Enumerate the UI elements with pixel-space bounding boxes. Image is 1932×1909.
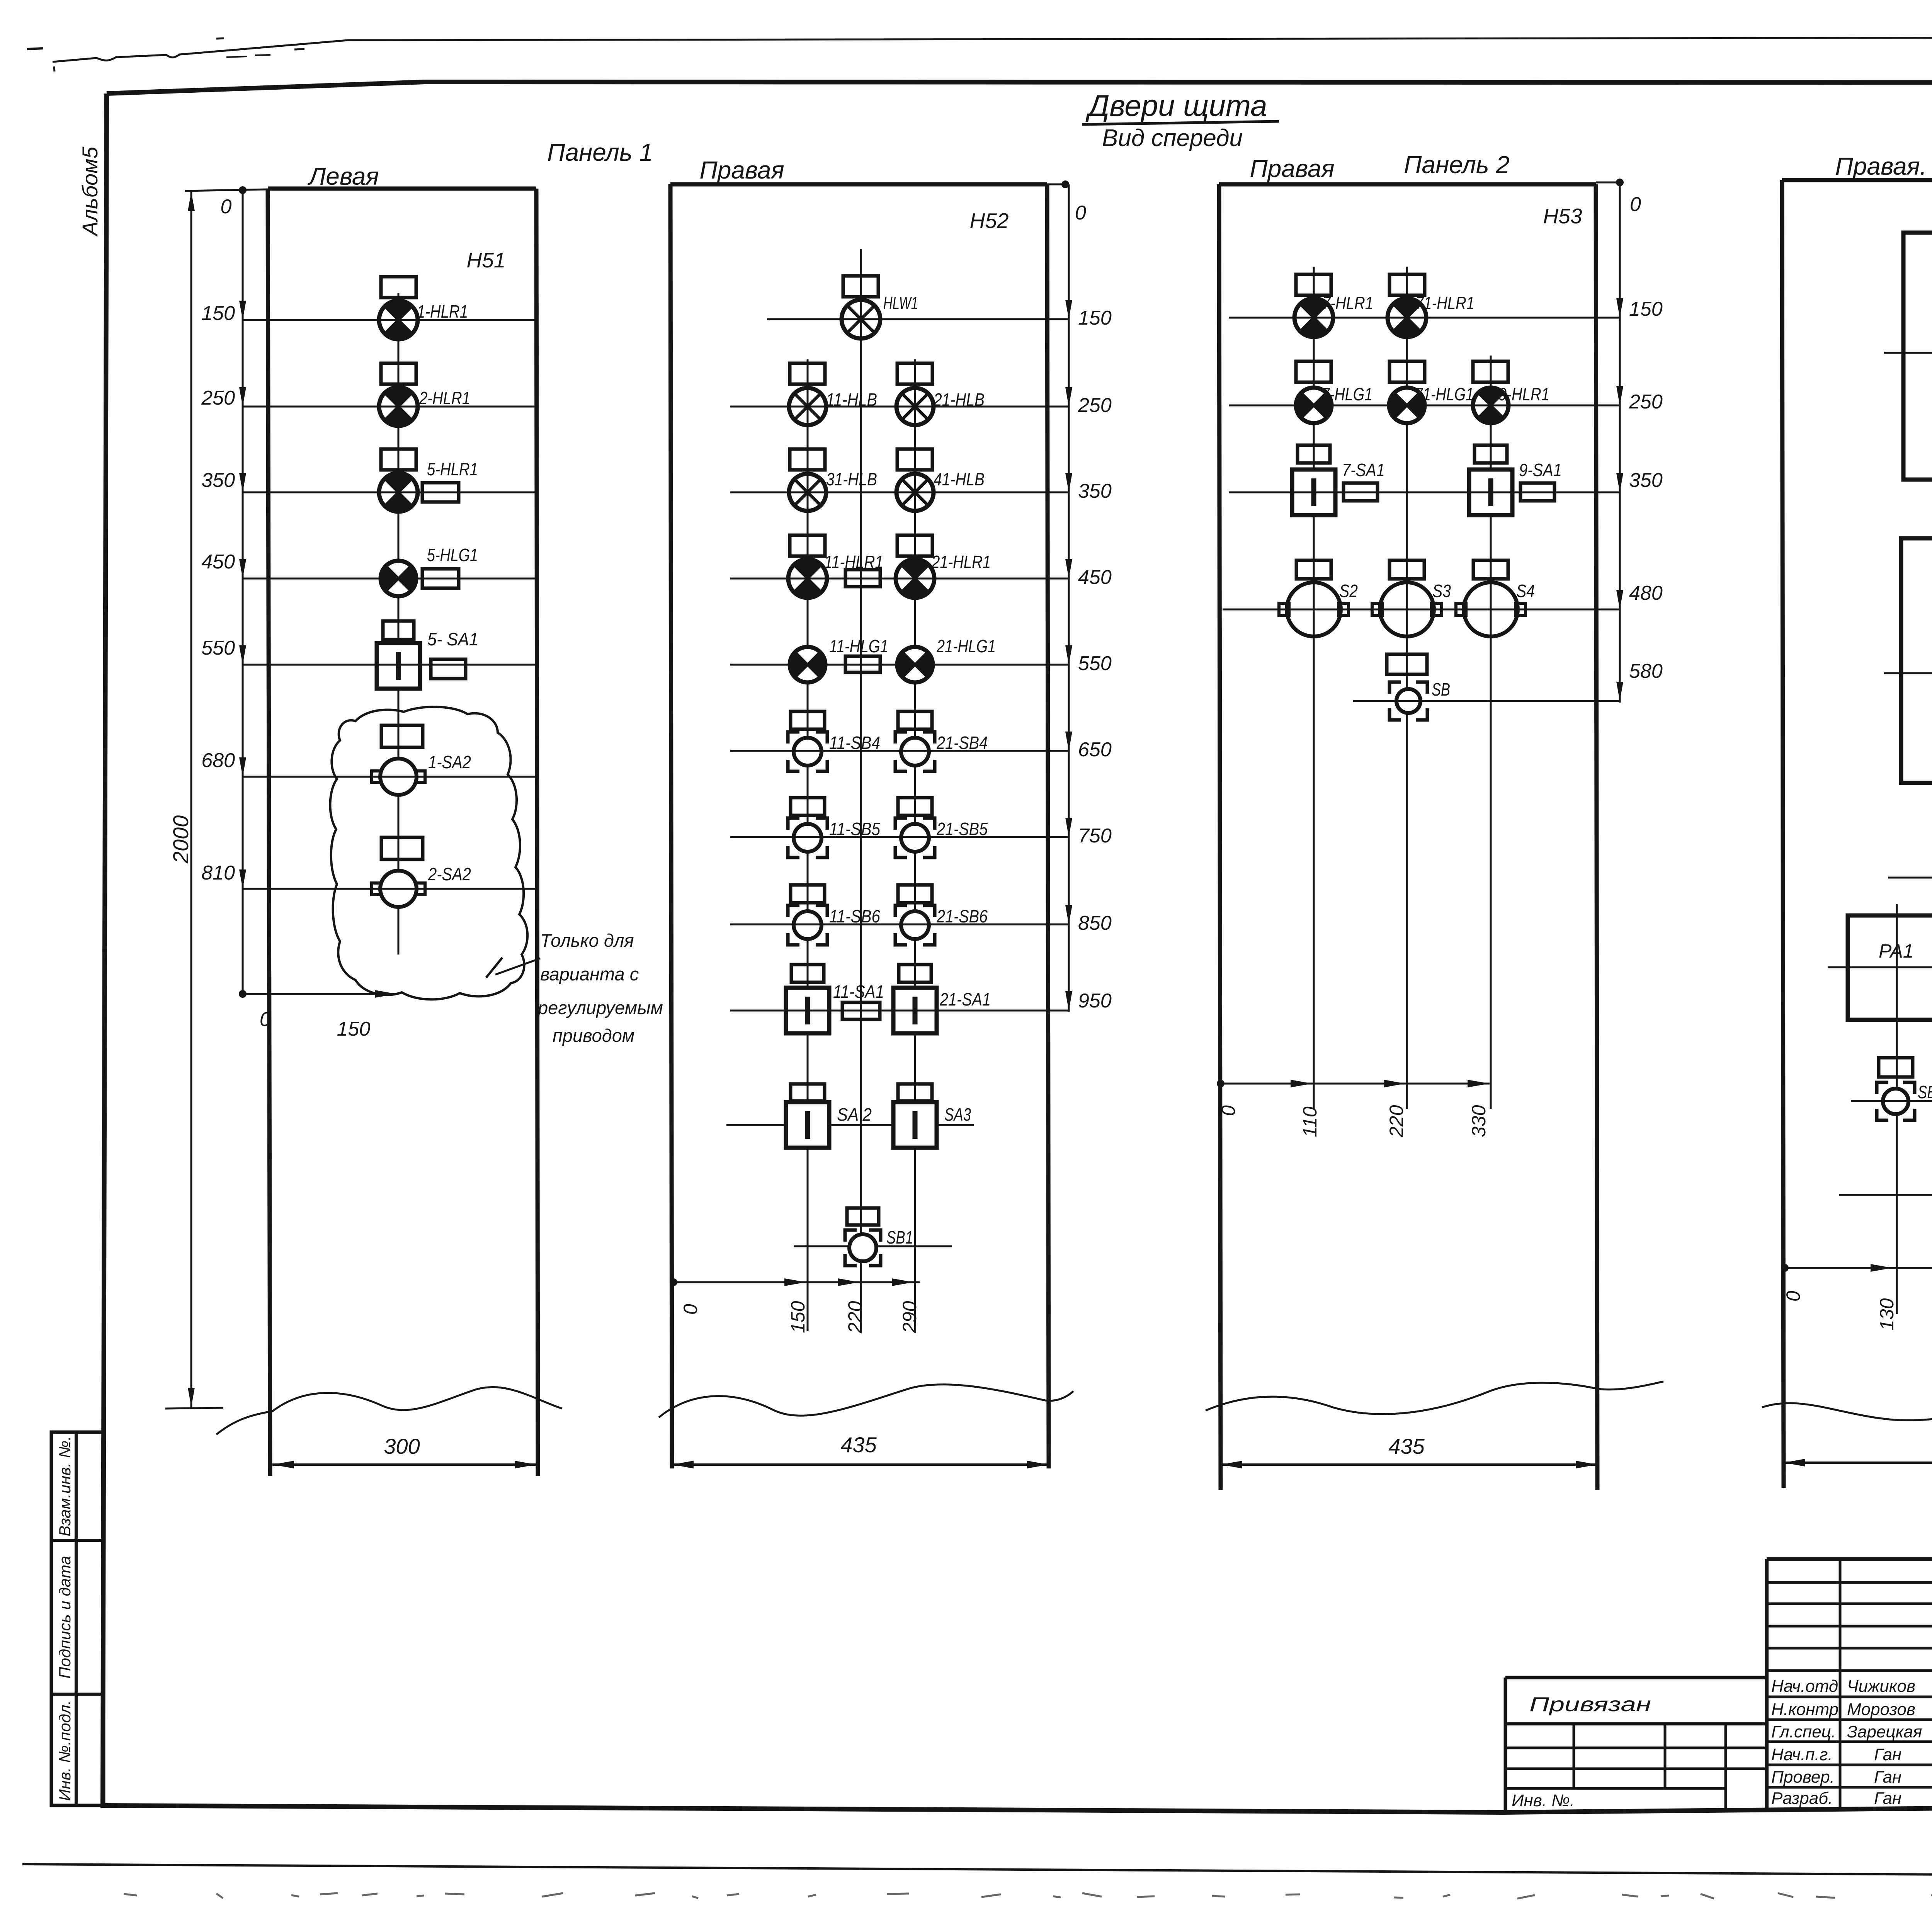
variant cloud outline — [330, 707, 527, 999]
svg-text:Ган: Ган — [1874, 1768, 1901, 1786]
switch 11-SA1 label — [833, 982, 884, 1002]
panel 3 dimension line 250 — [1229, 386, 1663, 413]
label Инв. N — [1512, 1791, 1575, 1810]
button 21-SB6 label — [936, 906, 988, 926]
svg-text:450: 450 — [1078, 566, 1112, 589]
panel 2 break wave — [659, 1385, 1073, 1417]
panel 2 designator Н52 — [970, 209, 1009, 233]
panel 2 dimension line 650 — [730, 732, 1112, 761]
svg-text:0: 0 — [680, 1304, 701, 1315]
staff row Гл.спец. Зарецкая — [1771, 1722, 1922, 1741]
panel 1 left door outline H51 — [268, 189, 538, 1476]
panel 2 right door outline H52 — [670, 184, 1049, 1468]
svg-text:71-HLR1: 71-HLR1 — [1415, 293, 1475, 313]
panel 3 label Панель 2 — [1404, 151, 1510, 179]
scan bottom smudge dashes — [124, 1893, 1932, 1899]
panel 2 dimension line 750 — [730, 818, 1112, 847]
instrument РТ1 — [1903, 233, 1932, 480]
staff table grid — [1767, 1559, 1932, 1809]
lamp 1-HLR1 — [379, 301, 418, 339]
panel 2 column centerline 220 — [860, 249, 862, 1331]
button 11-SB4 — [788, 732, 827, 771]
lamp 41-HLB — [896, 474, 934, 511]
lamp 1-HLR1 label — [417, 301, 468, 322]
button 21-SB4 label plate — [898, 711, 932, 729]
panel 2 dimension line 550 — [730, 645, 1112, 675]
panel 1 dimension line 550 — [201, 637, 536, 665]
lamp 11-HLG1 — [789, 647, 826, 682]
svg-text:SA 2: SA 2 — [837, 1104, 872, 1125]
button 11-SB5 label plate — [791, 798, 825, 815]
panel 3 dimension line 580 — [1353, 660, 1663, 701]
lamp 11-HLB label plate — [790, 363, 825, 384]
lamp 71-HLR1 label — [1415, 293, 1475, 313]
button SB1 label — [886, 1227, 913, 1247]
lamp 11-HLB — [789, 388, 826, 425]
lamp 9-HLR1 label plate — [1473, 361, 1508, 382]
button 21-SB4 label — [936, 733, 988, 753]
panel 2 title Правая — [699, 156, 784, 184]
lamp 5-HLR1 side plate — [422, 483, 459, 502]
main title Двери щита — [1082, 88, 1279, 124]
staff row Разраб. Ган — [1771, 1789, 1901, 1808]
panel 3 top-right dimension origin — [1596, 179, 1641, 703]
button 21-SB4 — [895, 732, 935, 771]
lamp 31-HLB — [789, 474, 826, 511]
svg-text:Нач.п.г.: Нач.п.г. — [1771, 1745, 1833, 1764]
svg-text:450: 450 — [201, 551, 235, 573]
panel 3 bottom position dimension — [1217, 1080, 1490, 1138]
svg-text:21-SB6: 21-SB6 — [936, 906, 988, 926]
svg-text:Только для: Только для — [540, 930, 634, 951]
panel 3 door outline H53 — [1219, 184, 1597, 1490]
svg-text:Провер.: Провер. — [1771, 1768, 1835, 1786]
svg-text:11-HLG1: 11-HLG1 — [829, 636, 888, 656]
label Панель 1 — [547, 138, 653, 166]
svg-text:71-HLG1: 71-HLG1 — [1415, 384, 1474, 404]
button 11-SB6 label plate — [791, 885, 825, 903]
svg-text:SB: SB — [1432, 679, 1450, 699]
svg-text:Панель 1: Панель 1 — [547, 138, 653, 166]
svg-text:150: 150 — [201, 302, 235, 325]
svg-text:2000: 2000 — [168, 815, 193, 864]
panel 2 top-right dimension origin — [1047, 180, 1086, 1012]
svg-text:21-SA1: 21-SA1 — [939, 989, 991, 1009]
svg-text:9-HLR1: 9-HLR1 — [1498, 384, 1549, 404]
panel 1 width dimension 300 — [272, 1434, 536, 1468]
lamp 7-HLG1 label plate — [1296, 361, 1331, 382]
svg-text:Ган: Ган — [1874, 1789, 1901, 1808]
switch 5-SA1 label plate — [383, 621, 414, 640]
panel 4 break wave — [1762, 1387, 1932, 1421]
switch 9-SA1 label plate — [1475, 445, 1507, 463]
lamp 11-HLR1 side plate — [845, 570, 880, 587]
switch S3 — [1372, 582, 1442, 636]
panel 4 dimension line 1050 — [1851, 1082, 1932, 1107]
switch S2 label — [1339, 581, 1358, 601]
svg-text:Панель 2: Панель 2 — [1404, 151, 1510, 179]
switch S2 — [1279, 582, 1349, 636]
button 11-SB4 label — [829, 733, 880, 753]
attachment box Привязан — [1505, 1678, 1767, 1812]
svg-text:7-SA1: 7-SA1 — [1342, 460, 1385, 480]
panel 1 dimension line 150 — [201, 301, 536, 325]
panel 3 column centerline 220 — [1406, 267, 1408, 1109]
button 21-SB5 label — [936, 819, 988, 839]
lamp 9-HLR1 — [1473, 387, 1509, 424]
lamp HLW1 label plate — [843, 276, 878, 297]
button 21-SB5 label plate — [898, 798, 932, 815]
button 11-SB4 label plate — [791, 711, 825, 729]
lamp 11-HLG1 side plate — [845, 656, 880, 672]
switch 11-SA1 — [786, 988, 829, 1033]
svg-text:приводом: приводом — [553, 1025, 634, 1046]
svg-text:220: 220 — [844, 1301, 866, 1334]
switch S3 label plate — [1389, 560, 1424, 579]
svg-text:0: 0 — [260, 1008, 271, 1031]
panel 1 break wave — [216, 1387, 562, 1434]
svg-text:350: 350 — [201, 469, 235, 492]
switch 7-SA1 side plate — [1344, 483, 1378, 501]
lamp 11-HLR1 label — [824, 552, 883, 572]
panel 3 width dimension 435 — [1221, 1434, 1597, 1468]
panel 2 dimension line 450 — [730, 559, 1112, 589]
lamp 71-HLR1 label plate — [1389, 274, 1425, 295]
svg-text:Правая: Правая — [699, 156, 784, 184]
svg-text:150: 150 — [1629, 298, 1663, 320]
svg-text:Н52: Н52 — [970, 209, 1009, 233]
panel 4 column centerline 130 — [1896, 904, 1898, 1314]
svg-text:350: 350 — [1078, 480, 1112, 502]
switch S3 label — [1432, 581, 1451, 601]
lamp 2-HLR1 label plate — [381, 363, 416, 384]
svg-text:5-HLR1: 5-HLR1 — [427, 459, 478, 479]
svg-text:2-SA2: 2-SA2 — [428, 864, 471, 884]
svg-text:330: 330 — [1468, 1105, 1490, 1137]
panel 1 dimension line 250 — [201, 387, 536, 409]
svg-text:810: 810 — [201, 862, 235, 884]
switch S4 label plate — [1473, 560, 1508, 579]
panel 2 dimension line 150 — [767, 300, 1112, 329]
panel 3 dimension line 480 — [1223, 582, 1663, 609]
button 11-SB6 — [788, 905, 827, 945]
switch 9-SA1 side plate — [1520, 483, 1554, 501]
svg-text:Чижиков: Чижиков — [1847, 1677, 1915, 1696]
svg-text:435: 435 — [1388, 1434, 1425, 1458]
svg-text:S3: S3 — [1432, 581, 1451, 601]
svg-text:41-HLB: 41-HLB — [934, 469, 985, 489]
svg-text:Н51: Н51 — [467, 248, 506, 272]
staff row Н.контр. Морозов — [1771, 1700, 1915, 1719]
lamp 7-HLR1 label plate — [1296, 274, 1331, 295]
lamp 11-HLB label — [826, 390, 877, 410]
lamp 71-HLG1 label — [1415, 384, 1474, 404]
svg-text:950: 950 — [1078, 990, 1112, 1012]
svg-text:250: 250 — [1078, 394, 1112, 417]
lamp 21-HLR1 label plate — [897, 535, 932, 556]
panel 2 column centerline 150 — [807, 359, 809, 1331]
lamp 5-HLR1 label — [427, 459, 478, 479]
svg-text:0: 0 — [1218, 1105, 1239, 1116]
switch 21-SA1 label — [939, 989, 991, 1009]
panel 3 title Правая — [1250, 155, 1334, 182]
panel 2 dimension line 950 — [730, 990, 1112, 1012]
switch SA 2 label — [837, 1104, 872, 1125]
button 11-SB6 label — [829, 906, 880, 926]
svg-text:21-SB4: 21-SB4 — [936, 733, 988, 753]
lamp 7-HLR1 — [1294, 298, 1333, 337]
svg-text:Н53: Н53 — [1543, 204, 1582, 228]
lamp 1-HLR1 label plate — [381, 277, 416, 298]
button 21-SB5 — [895, 818, 935, 858]
svg-text:варианта с: варианта с — [540, 964, 639, 984]
svg-text:Вид спереди: Вид спереди — [1102, 125, 1243, 151]
panel 1 overall height dimension 2000 — [165, 189, 268, 1409]
lamp 9-HLR1 label — [1498, 384, 1549, 404]
lamp 5-HLG1 side plate — [422, 569, 459, 588]
panel 2 dimension line 350 — [730, 473, 1112, 502]
panel 4 width dimension 435 — [1784, 1432, 1932, 1467]
switch 21-SA1 label plate — [899, 965, 931, 982]
switch 1-SA2 label plate — [381, 725, 423, 747]
switch 1-SA2 label — [428, 752, 471, 772]
svg-text:550: 550 — [1078, 652, 1112, 675]
lamp 11-HLR1 label plate — [790, 535, 825, 556]
panel 3 dimension line 150 — [1229, 298, 1663, 320]
switch row SA2 SA3 centerline — [726, 1124, 974, 1126]
svg-text:110: 110 — [1299, 1106, 1321, 1137]
lamp 11-HLG1 label — [829, 636, 888, 656]
panel 3 dimension line 350 — [1229, 469, 1663, 492]
svg-text:HLW1: HLW1 — [883, 293, 918, 313]
svg-text:750: 750 — [1078, 825, 1112, 847]
lamp 7-HLG1 — [1296, 388, 1332, 423]
button SB — [1389, 682, 1427, 720]
svg-text:Зарецкая: Зарецкая — [1847, 1722, 1922, 1741]
svg-text:Гл.спец.: Гл.спец. — [1771, 1722, 1836, 1741]
svg-text:130: 130 — [1876, 1298, 1898, 1331]
svg-text:1-SA2: 1-SA2 — [428, 752, 471, 772]
panel 3 break wave — [1206, 1382, 1663, 1414]
svg-text:5-HLG1: 5-HLG1 — [427, 545, 478, 565]
svg-text:850: 850 — [1078, 912, 1112, 934]
svg-text:150: 150 — [337, 1018, 371, 1040]
svg-text:1-HLR1: 1-HLR1 — [417, 301, 468, 322]
vertical label Взам.инв.N — [56, 1436, 74, 1536]
switch SA3 label — [944, 1104, 971, 1125]
svg-text:11-SB6: 11-SB6 — [829, 906, 880, 926]
label Привязан — [1529, 1693, 1651, 1716]
switch SA3 — [893, 1102, 937, 1148]
svg-text:SB1: SB1 — [886, 1227, 913, 1247]
instrument РК1 — [1901, 538, 1932, 783]
lamp 21-HLB label — [933, 390, 985, 410]
panel 4 dimension line 900 — [1828, 948, 1932, 976]
svg-text:150: 150 — [1078, 307, 1112, 329]
svg-text:550: 550 — [201, 637, 235, 659]
svg-text:300: 300 — [384, 1434, 420, 1458]
switch 11-SA1 side plate — [842, 1002, 880, 1019]
panel 1 title Левая — [307, 162, 379, 190]
svg-text:21-HLG1: 21-HLG1 — [936, 636, 996, 656]
switch S4 — [1456, 582, 1526, 636]
svg-text:21-HLR1: 21-HLR1 — [931, 552, 991, 572]
lamp 21-HLG1 label — [936, 636, 996, 656]
panel 2 width dimension 435 — [672, 1433, 1049, 1468]
switch 2-SA2 — [372, 871, 425, 907]
lamp 5-HLG1 — [380, 561, 417, 596]
svg-text:150: 150 — [787, 1301, 809, 1333]
switch 7-SA1 label — [1342, 460, 1385, 480]
button SB1 label plate — [847, 1208, 879, 1225]
lamp 71-HLG1 — [1389, 388, 1425, 423]
svg-text:290: 290 — [899, 1301, 920, 1334]
panel 2 column centerline 290 — [914, 359, 916, 1331]
svg-text:0: 0 — [1782, 1291, 1804, 1302]
subtitle Вид спереди — [1102, 125, 1243, 151]
button SB label — [1432, 679, 1450, 699]
panel 4 door outline H54 — [1782, 180, 1932, 1488]
lamp 31-HLB label plate — [790, 449, 825, 470]
svg-text:SA3: SA3 — [944, 1104, 971, 1125]
staff row Нач.п.г. Ган — [1771, 1745, 1901, 1764]
scan page edge marks top-left — [27, 38, 304, 71]
lamp 21-HLB label plate — [897, 363, 932, 384]
switch 2-SA2 label — [428, 864, 471, 884]
svg-text:350: 350 — [1629, 469, 1663, 492]
svg-text:Правая: Правая — [1250, 155, 1334, 182]
svg-text:0: 0 — [221, 196, 232, 218]
panel 2 dimension line 250 — [730, 387, 1112, 417]
lamp 5-HLR1 — [379, 473, 418, 512]
button SB label plate — [1387, 654, 1427, 674]
lamp 21-HLR1 label — [931, 552, 991, 572]
panel 1 vertical centerline — [398, 293, 400, 954]
panel 4 dimension line 200 — [1884, 333, 1932, 361]
svg-text:11-SA1: 11-SA1 — [833, 982, 884, 1002]
svg-text:Ган: Ган — [1874, 1745, 1901, 1764]
lamp 71-HLG1 label plate — [1389, 361, 1425, 382]
panel 1 dimension line 450 — [201, 551, 536, 578]
svg-text:Морозов: Морозов — [1847, 1700, 1915, 1719]
svg-text:7-HLG1: 7-HLG1 — [1321, 384, 1372, 404]
panel 1 dimension line 350 — [201, 469, 536, 492]
scan top edge line — [53, 37, 1932, 62]
switch S4 label — [1516, 581, 1535, 601]
vertical text Альбом5 top left margin — [78, 146, 102, 237]
svg-text:Нач.отд.: Нач.отд. — [1771, 1677, 1843, 1696]
svg-text:11-SB5: 11-SB5 — [829, 819, 880, 839]
switch 2-SA2 label plate — [381, 837, 423, 859]
scan bottom edge line — [22, 1864, 1932, 1878]
panel 1 dimension line 810 — [201, 862, 536, 889]
panel 1 zero reference line — [221, 186, 247, 994]
switch 5-SA1 — [377, 643, 420, 689]
lamp 71-HLR1 — [1388, 298, 1426, 337]
svg-text:5- SA1: 5- SA1 — [427, 629, 478, 649]
lamp 7-HLG1 label — [1321, 384, 1372, 404]
lamp 5-HLG1 label — [427, 545, 478, 565]
lamp 5-HLR1 label plate — [381, 449, 416, 470]
switch 5-SA1 label — [427, 629, 478, 649]
instrument РА1 — [1848, 915, 1932, 1020]
panel 1 bottom position dimension — [239, 990, 396, 1040]
svg-text:Инв. №.: Инв. №. — [1512, 1791, 1575, 1810]
svg-text:Разраб.: Разраб. — [1771, 1789, 1833, 1808]
button SB1 — [845, 1230, 881, 1266]
staff row Провер. Ган — [1771, 1768, 1901, 1786]
lamp 41-HLB label plate — [897, 449, 932, 470]
button SB1 row line — [794, 1245, 952, 1247]
svg-text:680: 680 — [201, 749, 235, 772]
lamp 21-HLR1 — [896, 559, 934, 598]
button 21-SB6 label plate — [898, 885, 932, 903]
switch 5-SA1 side plate — [431, 659, 466, 679]
svg-text:Двери щита: Двери щита — [1085, 88, 1267, 123]
panel 4 bottom position dimension — [1781, 1264, 1932, 1331]
svg-text:21-SB5: 21-SB5 — [936, 819, 988, 839]
svg-text:регулируемым: регулируемым — [537, 997, 663, 1018]
lamp 2-HLR1 label — [419, 388, 470, 408]
lamp 31-HLB label — [826, 469, 877, 489]
panel 4 dimension line 1150 — [1839, 1176, 1932, 1204]
button SB1 — [1877, 1082, 1915, 1120]
svg-text:31-HLB: 31-HLB — [826, 469, 877, 489]
svg-text:Привязан: Привязан — [1529, 1693, 1651, 1716]
svg-text:Подпись и дата: Подпись и дата — [56, 1556, 74, 1679]
svg-text:480: 480 — [1629, 582, 1663, 604]
variant note text — [537, 930, 663, 1046]
switch SA 2 — [786, 1102, 829, 1148]
panel 2 dimension line 850 — [730, 905, 1112, 934]
button SB1 label plate — [1879, 1058, 1913, 1077]
svg-text:0: 0 — [1075, 202, 1086, 224]
vertical label Инв.N подл. — [56, 1700, 74, 1801]
svg-text:220: 220 — [1386, 1105, 1407, 1138]
switch 21-SA1 — [893, 988, 937, 1033]
panel 1 dimension line 680 — [201, 749, 536, 777]
lamp 7-HLR1 label — [1322, 293, 1373, 313]
button 11-SB5 label — [829, 819, 880, 839]
panel 3 column centerline 330 — [1490, 356, 1492, 1109]
svg-text:Взам.инв. №.: Взам.инв. №. — [56, 1436, 74, 1536]
svg-text:Альбом5: Альбом5 — [78, 146, 102, 237]
svg-text:11-SB4: 11-SB4 — [829, 733, 880, 753]
lamp 41-HLB label — [934, 469, 985, 489]
left margin stamp boxes — [51, 1432, 104, 1805]
svg-text:580: 580 — [1629, 660, 1663, 682]
lamp 21-HLG1 — [897, 647, 933, 682]
svg-text:Правая.: Правая. — [1835, 152, 1927, 180]
switch 9-SA1 — [1469, 470, 1512, 515]
svg-text:7-HLR1: 7-HLR1 — [1322, 293, 1373, 313]
svg-text:650: 650 — [1078, 738, 1112, 761]
svg-text:250: 250 — [1629, 391, 1663, 413]
svg-text:250: 250 — [201, 387, 235, 409]
vertical label Подпись и дата — [56, 1556, 74, 1679]
panel 3 column centerline 110 — [1313, 267, 1315, 1109]
panel 1 designator Н51 — [467, 248, 506, 272]
switch 9-SA1 label — [1519, 460, 1562, 480]
switch 1-SA2 — [372, 759, 425, 795]
switch SA 2 label plate — [791, 1084, 825, 1101]
staff row Нач.отд. Чижиков — [1771, 1677, 1915, 1696]
svg-text:2-HLR1: 2-HLR1 — [419, 388, 470, 408]
svg-text:S2: S2 — [1339, 581, 1358, 601]
button SB1 label — [1918, 1082, 1932, 1102]
variant note leader — [486, 958, 540, 978]
panel 3 designator Н53 — [1543, 204, 1582, 228]
